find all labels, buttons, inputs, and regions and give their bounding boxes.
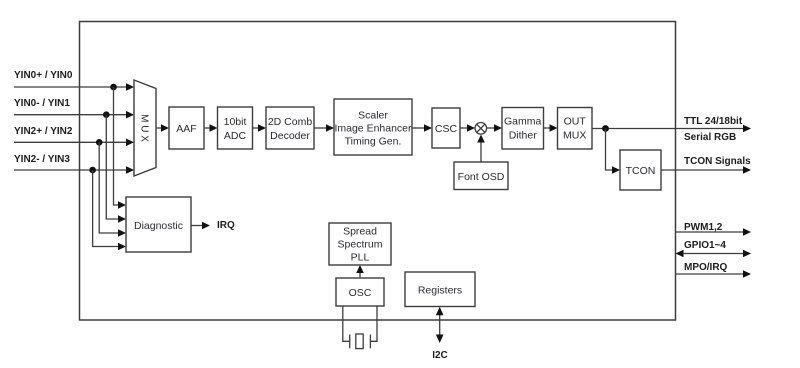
arrow TTL RGB out	[743, 125, 751, 133]
arrow into Scaler	[326, 124, 334, 132]
wire crystal left leg	[343, 306, 350, 341]
svg-text:Timing Gen.: Timing Gen.	[345, 136, 402, 148]
svg-text:YIN0+ / YIN0: YIN0+ / YIN0	[14, 70, 73, 81]
chip outer boundary	[80, 22, 676, 321]
wire mixer to Gamma Dither	[487, 127, 496, 129]
svg-text:Gamma: Gamma	[504, 116, 542, 128]
wire ADC to 2D Comb	[253, 127, 261, 129]
svg-text:TTL 24/18bit: TTL 24/18bit	[684, 116, 743, 127]
crystal left plate	[349, 335, 351, 349]
block Font OSD	[454, 162, 508, 190]
svg-text:2D Comb: 2D Comb	[268, 116, 313, 128]
node junction dot YIN2	[96, 139, 103, 146]
arrow into PLL	[356, 265, 364, 273]
svg-text:OSC: OSC	[349, 287, 372, 299]
svg-text:Spectrum: Spectrum	[338, 239, 383, 251]
wire tap YIN1 to Diagnostic	[106, 115, 120, 219]
block TCON	[620, 150, 661, 190]
wire GPIO bidirectional	[681, 253, 745, 255]
block CSC	[432, 108, 460, 148]
mixer OSD blend (circle-X)	[475, 123, 487, 135]
block AAF	[169, 107, 204, 149]
wire 2D Comb to Scaler	[314, 127, 328, 129]
wire tap YIN2 to Diagnostic	[99, 142, 120, 233]
wire tap YIN0 to Diagnostic	[114, 87, 121, 205]
arrow into MUX pin1	[126, 83, 134, 91]
block OSC	[336, 278, 384, 306]
arrow into Diagnostic in1	[118, 201, 126, 209]
svg-text:MUX: MUX	[563, 130, 586, 142]
arrow GPIO right	[743, 250, 751, 258]
block Diagnostic	[126, 197, 191, 252]
wire MUX to AAF	[156, 127, 163, 129]
svg-text:MPO/IRQ: MPO/IRQ	[684, 262, 728, 273]
arrow MPO	[743, 270, 751, 278]
arrow GPIO left	[676, 250, 684, 258]
arrow I2C up	[436, 307, 444, 316]
arrow into 2D Comb Decoder	[258, 124, 266, 132]
svg-text:TCON: TCON	[626, 165, 656, 177]
wire PWM out	[676, 231, 746, 233]
wire AAF to ADC	[204, 127, 211, 129]
arrow PWM	[743, 228, 751, 236]
arrow into MUX pin4	[126, 166, 134, 174]
svg-text:CSC: CSC	[435, 123, 458, 135]
arrow into AAF	[161, 124, 169, 132]
wire IRQ out	[191, 225, 204, 227]
block Gamma Dither	[502, 108, 544, 150]
wire MPO out	[676, 273, 746, 275]
wire Gamma to OUT MUX	[544, 127, 552, 129]
svg-text:YIN2+ / YIN2: YIN2+ / YIN2	[14, 126, 73, 137]
arrow into ADC	[210, 124, 218, 132]
svg-text:GPIO1~4: GPIO1~4	[684, 240, 726, 251]
block 10bit ADC	[218, 107, 253, 149]
svg-text:Spread: Spread	[343, 226, 377, 238]
svg-text:Registers: Registers	[418, 285, 462, 297]
arrow into mixer	[467, 124, 475, 132]
svg-text:Image Enhancer: Image Enhancer	[334, 123, 412, 135]
arrow into MUX pin2	[126, 111, 134, 119]
wire YIN1 input line	[14, 114, 128, 116]
block Spread Spectrum PLL	[329, 223, 391, 265]
svg-text:ADC: ADC	[224, 130, 247, 142]
wire CSC to mixer	[460, 127, 469, 129]
wire OUT MUX to TTL RGB output	[592, 128, 745, 130]
svg-text:Scaler: Scaler	[358, 110, 388, 122]
wire YIN2 input line	[14, 141, 128, 143]
arrow into Diagnostic in2	[118, 215, 126, 223]
svg-text:Decoder: Decoder	[270, 130, 310, 142]
arrow IRQ	[202, 222, 210, 230]
wire Scaler to CSC	[412, 127, 426, 129]
arrow into mixer from Font OSD	[477, 135, 485, 143]
svg-text:Dither: Dither	[509, 130, 538, 142]
wire tap YIN3 to Diagnostic	[93, 170, 120, 247]
wire OSC to PLL	[359, 270, 361, 278]
wire YIN3 input line	[14, 169, 128, 171]
block Registers	[405, 272, 475, 307]
svg-text:YIN0- / YIN1: YIN0- / YIN1	[14, 98, 70, 109]
svg-text:YIN2- / YIN3: YIN2- / YIN3	[14, 154, 70, 165]
node junction dot after OUT MUX	[602, 125, 609, 132]
node junction dot YIN3	[89, 167, 96, 174]
svg-text:Serial RGB: Serial RGB	[684, 132, 736, 143]
mux U-MUX trapezoid	[134, 80, 156, 176]
svg-text:PLL: PLL	[351, 252, 370, 264]
arrow into Diagnostic in4	[118, 243, 126, 251]
wire TCON signals out	[661, 169, 745, 171]
crystal right plate	[369, 335, 371, 349]
svg-text:M U X: M U X	[139, 114, 150, 142]
block 2D Comb Decoder	[266, 107, 314, 149]
arrow into CSC	[424, 124, 432, 132]
svg-text:TCON Signals: TCON Signals	[684, 156, 751, 167]
arrow TCON signals	[743, 166, 751, 174]
wire crystal right leg	[371, 306, 377, 341]
svg-text:OUT: OUT	[564, 116, 587, 128]
arrow into OUT MUX	[550, 124, 558, 132]
wire branch to TCON	[606, 129, 615, 171]
svg-text:Font OSD: Font OSD	[458, 171, 505, 183]
arrow into Diagnostic in3	[118, 229, 126, 237]
block Scaler Image Enhancer Timing Gen.	[334, 99, 412, 155]
svg-text:IRQ: IRQ	[217, 220, 235, 231]
arrow into Gamma Dither	[494, 124, 502, 132]
arrow I2C down	[436, 335, 444, 344]
svg-text:10bit: 10bit	[224, 116, 247, 128]
wire YIN0 input line	[14, 86, 128, 88]
block OUT MUX	[558, 108, 593, 150]
svg-text:I2C: I2C	[432, 350, 448, 361]
arrow into TCON	[612, 166, 620, 174]
wire I2C bidirectional	[439, 313, 441, 337]
wire Font OSD to mixer	[480, 140, 482, 162]
node junction dot YIN1	[103, 111, 110, 118]
svg-text:AAF: AAF	[176, 123, 196, 135]
node junction dot YIN0	[110, 84, 117, 91]
svg-text:Diagnostic: Diagnostic	[134, 220, 183, 232]
arrow into MUX pin3	[126, 139, 134, 147]
crystal X1 body	[356, 334, 363, 349]
